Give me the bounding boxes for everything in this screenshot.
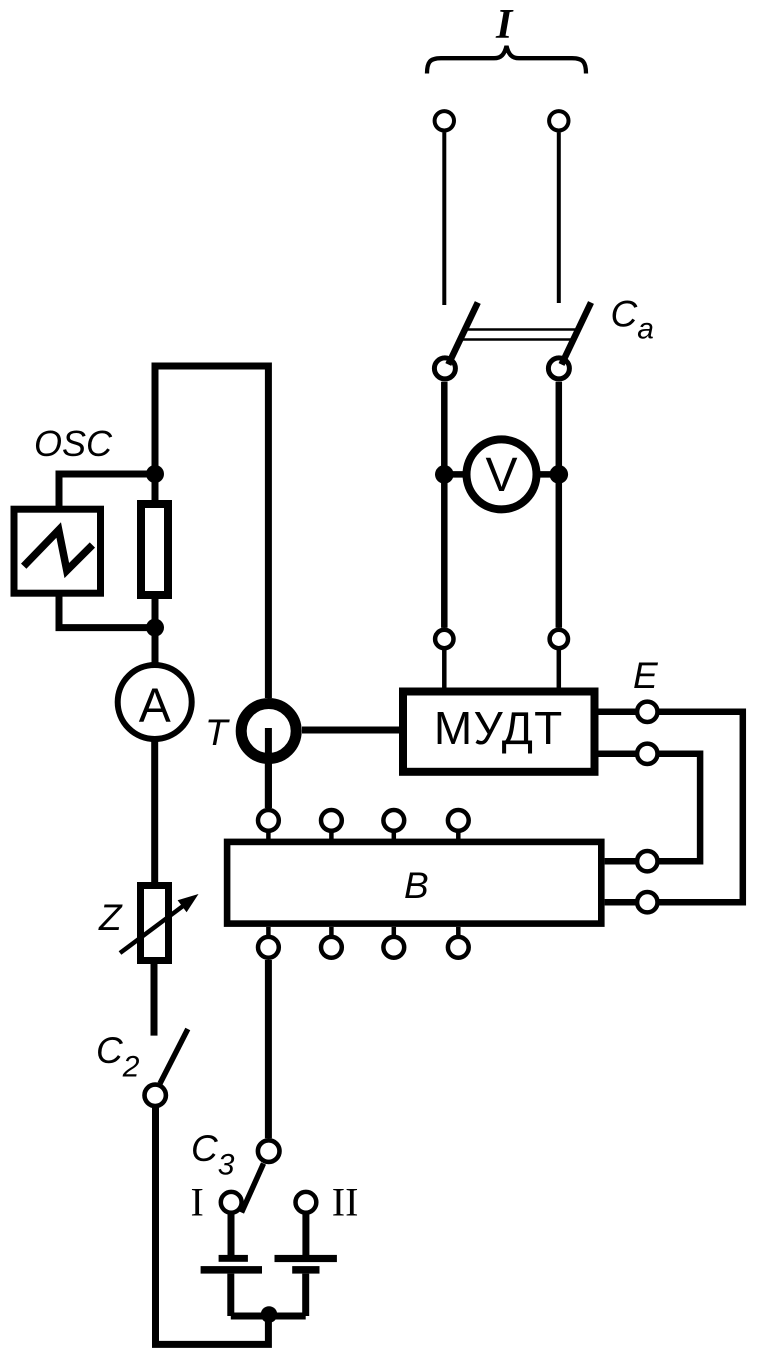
contact I (221, 1192, 242, 1213)
svg-text:V: V (485, 449, 517, 502)
ammeter A (118, 665, 192, 739)
junction battery (261, 1306, 278, 1323)
terminal B top 4 (448, 810, 469, 831)
wire Z to C2 (151, 964, 158, 1036)
wire MUDT to E1 (599, 709, 638, 716)
terminal B top 1 (258, 810, 279, 831)
wire battery II down (302, 1274, 309, 1316)
transformer T primary lower (265, 728, 272, 808)
wire right vertical to MUDT (556, 382, 563, 628)
wire battery connector (231, 1313, 306, 1320)
wire OSC top connector (59, 474, 155, 507)
wire B to E3 (605, 858, 637, 865)
battery I short plate (219, 1255, 248, 1262)
wire stub to MUDT right (557, 650, 562, 688)
battery II short plate (292, 1266, 319, 1274)
wire junction to resistor (152, 466, 159, 504)
wire B to C3 (265, 960, 272, 1138)
switch Ca blade right (562, 303, 592, 365)
terminal E1 (637, 702, 657, 722)
brace (427, 46, 586, 74)
block B (227, 842, 601, 924)
impedance Z arrow (120, 906, 183, 953)
wire II to battery II (302, 1213, 309, 1255)
junction right (550, 465, 569, 484)
terminal B bottom 2 (321, 937, 342, 958)
switch Ca contact left (434, 358, 455, 379)
wire top-right vertical (557, 132, 561, 303)
svg-text:Ca: Ca (611, 293, 654, 345)
terminal B bottom 1 (258, 937, 279, 958)
wire T to MUDT (302, 727, 399, 734)
wire E1 loop right (658, 712, 743, 902)
wire MUDT to E2 (599, 751, 638, 758)
oscillator OSC box (14, 509, 101, 593)
switch C2 contact (145, 1085, 166, 1106)
transformer T ring (241, 704, 296, 759)
terminal B top 2 (321, 810, 342, 831)
junction top (146, 465, 164, 483)
terminal above MUDT right (550, 630, 568, 648)
terminal above MUDT left (435, 630, 453, 648)
voltmeter V (467, 439, 537, 509)
junction left (435, 465, 454, 484)
wire top-left vertical (442, 132, 446, 305)
svg-text:B: B (404, 865, 429, 906)
wire B to E4 (605, 899, 637, 906)
stubs B top (268, 831, 458, 839)
terminal top-left (435, 111, 454, 130)
switch Ca contact right (548, 358, 569, 379)
switch Ca blade left (448, 303, 478, 365)
wire E2 loop inner (658, 754, 701, 861)
svg-text:T: T (205, 712, 230, 753)
transformer T primary inner (265, 728, 272, 808)
contact II (296, 1192, 317, 1213)
svg-text:Z: Z (98, 897, 123, 938)
wire left vertical to MUDT (441, 382, 448, 628)
oscillator sawtooth (24, 530, 93, 571)
svg-text:C2: C2 (96, 1030, 140, 1084)
wire junction to ammeter (152, 628, 159, 666)
switch Ca linkage (460, 330, 579, 340)
battery II long plate (275, 1255, 337, 1262)
svg-text:C3: C3 (191, 1128, 235, 1182)
terminal E3 (637, 851, 657, 871)
wire battery I down (227, 1274, 234, 1316)
terminal E2 (637, 744, 657, 764)
wire voltmeter stub (444, 471, 559, 478)
wire OSC bottom connector (59, 596, 155, 628)
svg-text:II: II (332, 1180, 359, 1225)
terminal E4 (637, 892, 657, 912)
block MUDT (403, 692, 595, 772)
terminal B bottom 4 (448, 937, 469, 958)
switch C2 blade (160, 1029, 188, 1084)
svg-text:OSC: OSC (34, 423, 113, 464)
battery I long plate (201, 1266, 262, 1274)
svg-text:E: E (633, 655, 659, 696)
switch C3 blade (242, 1164, 264, 1213)
wire resistor to junction (152, 595, 159, 628)
stubs B bottom (268, 927, 458, 935)
wire C2 down bottom and up to battery junction (156, 1107, 269, 1345)
svg-text:I: I (495, 2, 514, 48)
junction bottom (146, 619, 164, 637)
svg-text:МУДТ: МУДТ (434, 702, 564, 754)
terminal B top 3 (383, 810, 404, 831)
wire top horizontal + left and right verticals (155, 366, 268, 698)
terminal top-right (549, 111, 568, 130)
svg-text:A: A (139, 680, 171, 733)
svg-text:I: I (191, 1180, 204, 1225)
terminal B bottom 3 (383, 937, 404, 958)
wire I to battery I (228, 1213, 235, 1255)
wire stub to MUDT left (442, 650, 447, 688)
wire ammeter to Z (151, 739, 158, 886)
impedance Z box (141, 886, 169, 961)
switch C3 top contact (258, 1140, 280, 1162)
resistor (141, 504, 168, 595)
